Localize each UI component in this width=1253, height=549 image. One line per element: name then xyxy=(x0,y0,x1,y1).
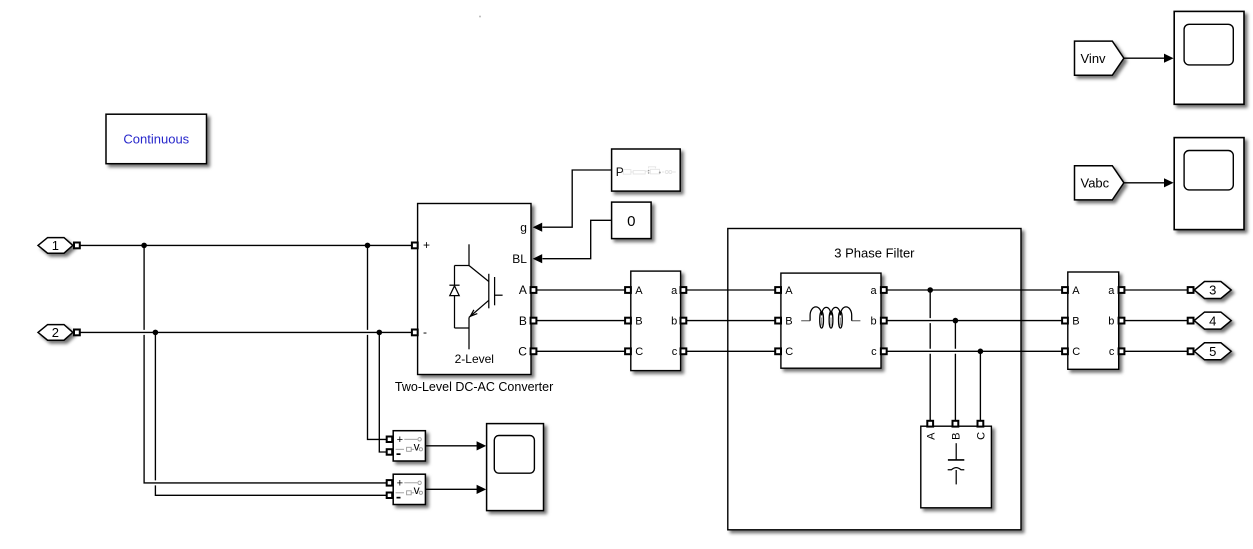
svg-text:3 Phase Filter: 3 Phase Filter xyxy=(834,246,915,261)
svg-text:2: 2 xyxy=(52,325,59,340)
svg-text:B: B xyxy=(951,433,963,440)
svg-text:Vabc: Vabc xyxy=(1081,176,1110,191)
svg-text:P: P xyxy=(616,165,624,179)
svg-text:v: v xyxy=(414,483,420,497)
svg-text:BL: BL xyxy=(512,252,527,266)
svg-text:2-Level: 2-Level xyxy=(455,352,494,366)
svg-text:1: 1 xyxy=(52,238,59,253)
svg-text:A: A xyxy=(519,283,527,297)
svg-text:C: C xyxy=(1072,346,1080,358)
svg-text:B: B xyxy=(785,316,792,328)
svg-text:Two-Level DC-AC Converter: Two-Level DC-AC Converter xyxy=(395,380,553,394)
svg-text:b: b xyxy=(1108,316,1114,328)
svg-text:3: 3 xyxy=(1209,283,1216,298)
svg-text:A: A xyxy=(925,432,937,440)
svg-text:C: C xyxy=(976,432,988,440)
svg-text:B: B xyxy=(1072,316,1079,328)
svg-text:C: C xyxy=(635,346,643,358)
svg-text:-: - xyxy=(423,325,427,339)
svg-text:+: + xyxy=(423,238,430,252)
svg-text:c: c xyxy=(1109,346,1115,358)
svg-text:Continuous: Continuous xyxy=(123,131,189,146)
svg-text:0: 0 xyxy=(627,213,635,230)
svg-text:a: a xyxy=(1108,285,1115,297)
svg-text:A: A xyxy=(635,285,643,297)
svg-text:a: a xyxy=(671,285,678,297)
svg-text:b: b xyxy=(671,316,677,328)
svg-text:B: B xyxy=(635,316,642,328)
svg-text:c: c xyxy=(672,346,678,358)
svg-text:c: c xyxy=(871,346,877,358)
svg-text:A: A xyxy=(785,285,793,297)
svg-text:+: + xyxy=(397,478,403,490)
svg-text:a: a xyxy=(870,285,877,297)
svg-text:+: + xyxy=(397,434,403,446)
svg-text:B: B xyxy=(519,314,527,328)
svg-text:v: v xyxy=(414,440,420,454)
svg-text:A: A xyxy=(1072,285,1080,297)
svg-text:4: 4 xyxy=(1209,313,1216,328)
svg-text:5: 5 xyxy=(1209,344,1216,359)
svg-text:b: b xyxy=(870,316,876,328)
svg-text:C: C xyxy=(785,346,793,358)
svg-text:C: C xyxy=(518,345,527,359)
svg-text:Vinv: Vinv xyxy=(1081,51,1107,66)
svg-text:g: g xyxy=(520,220,527,234)
